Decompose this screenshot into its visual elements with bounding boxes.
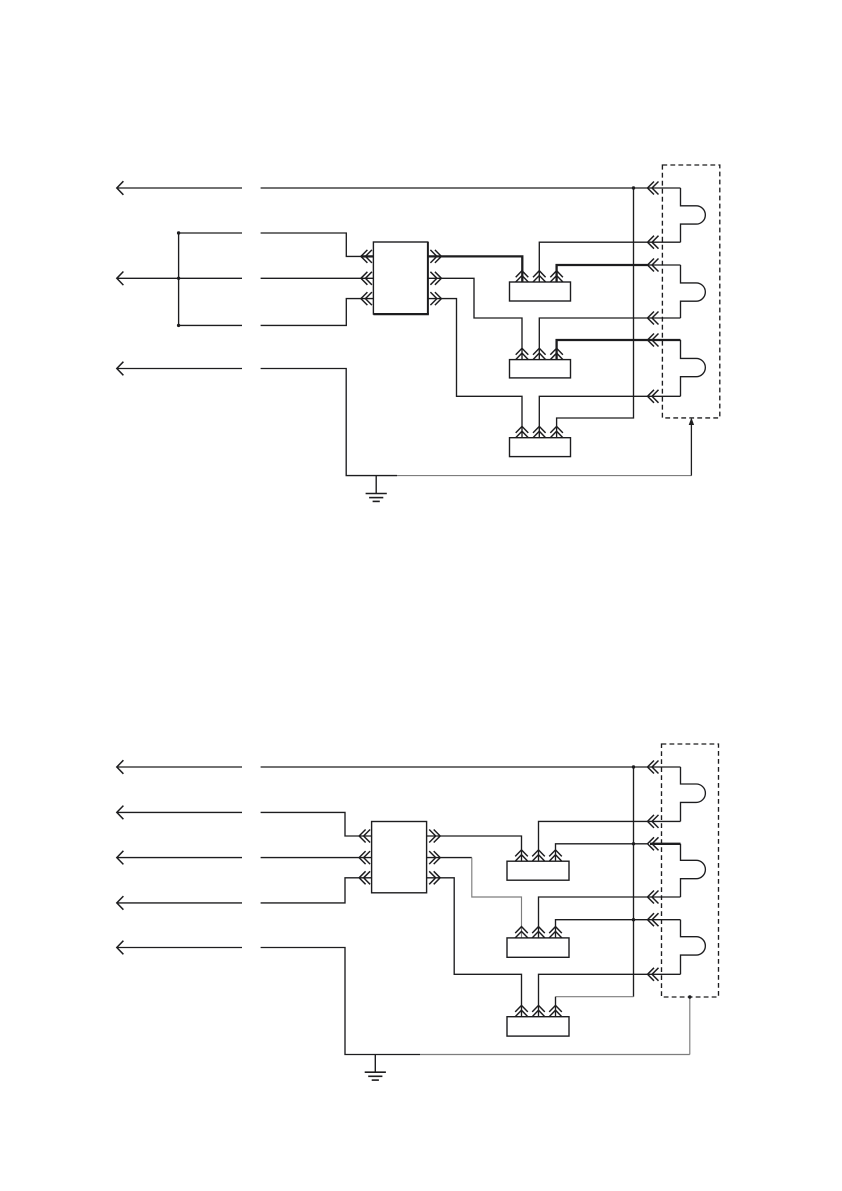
pin B1-2 chevrons bbox=[533, 271, 546, 282]
connector arrow into LP6 top bbox=[648, 913, 659, 926]
wire U1 R1 to socket B1 pin1 (bold) bbox=[428, 256, 523, 282]
wire U1 R3 to socket B3 pin1 bbox=[428, 299, 522, 438]
wire B5 pin2 to lamp LP5 bottom bbox=[539, 897, 681, 938]
pin U2 R1 chevrons bbox=[429, 830, 440, 843]
pin B5-2 chevrons bbox=[532, 927, 545, 938]
node J3 junction dot bbox=[632, 842, 635, 845]
wire rail riser to lamp housing with arrowhead bbox=[689, 418, 694, 476]
node JB1 junction dot bbox=[177, 231, 180, 234]
wire branch-bottom to U1 pin L3 bbox=[261, 299, 374, 326]
pin B1-1 chevrons bbox=[516, 271, 529, 282]
connector arrow into LP3 bottom bbox=[648, 390, 659, 403]
node J5 junction dot bbox=[688, 995, 691, 998]
pin U1 R1 chevrons bbox=[430, 250, 441, 263]
bulb socket B1 bbox=[510, 282, 571, 301]
connector arrow into LP3 top bbox=[648, 334, 659, 347]
connector arrow into LP5 bottom bbox=[648, 891, 659, 904]
wire W4 left segment with arrowhead bbox=[117, 760, 242, 774]
ground G1 bbox=[366, 476, 387, 502]
wire U2 R1 to socket B4 pin1 bbox=[427, 836, 522, 861]
pin B5-3 chevrons bbox=[549, 927, 562, 938]
wire W3 ground rail bbox=[261, 369, 692, 476]
pin B3-3 chevrons bbox=[550, 426, 563, 437]
node JB2 junction dot bbox=[177, 277, 180, 280]
node J2 junction dot bbox=[632, 765, 635, 768]
pin U1 L2 chevrons bbox=[361, 272, 372, 285]
pin U1 R2 chevrons bbox=[430, 272, 441, 285]
wire U2 R2 to socket B5 pin1 bbox=[427, 858, 522, 938]
lamp housing dashed enclosure (bottom diagram) bbox=[662, 744, 719, 997]
wire branch-bottom left segment bbox=[179, 324, 242, 326]
connector arrow into LP1 bottom bbox=[648, 236, 659, 249]
pin B6-2 chevrons bbox=[532, 1005, 545, 1016]
pin B6-3 chevrons bbox=[549, 1005, 562, 1016]
bulb socket B5 bbox=[507, 938, 569, 957]
pin B5-1 chevrons bbox=[515, 927, 528, 938]
wire W1 right segment to lamp LP1 top bbox=[261, 187, 681, 189]
wire branch-top to U1 pin L1 bbox=[261, 233, 374, 256]
wire W4 right segment to lamp LP4 top bbox=[261, 766, 681, 768]
ground G2 bbox=[365, 1055, 386, 1081]
connector arrow into LP2 top bbox=[648, 259, 659, 272]
lamp LP6 bbox=[681, 920, 706, 975]
pin U2 L3 chevrons bbox=[359, 871, 370, 884]
lamp housing dashed enclosure (top diagram) bbox=[662, 165, 719, 418]
pin B2-3 chevrons bbox=[550, 348, 563, 359]
wire W1 left segment with arrowhead bbox=[117, 181, 242, 195]
connector arrow into LP2 bottom bbox=[648, 312, 659, 325]
pin U1 L3 chevrons bbox=[361, 292, 372, 305]
control unit U2 bbox=[372, 822, 427, 893]
bulb socket B4 bbox=[507, 861, 569, 880]
pin B6-1 chevrons bbox=[515, 1005, 528, 1016]
wire branch-top left segment bbox=[179, 232, 242, 234]
wire B1 pin3 to lamp LP2 top (bold) bbox=[557, 265, 681, 282]
connector arrow into LP4 top bbox=[648, 761, 659, 774]
wire bus J2 to socket B6 pin3 bbox=[556, 767, 634, 1017]
lamp LP4 bbox=[681, 767, 706, 821]
pin U2 R2 chevrons bbox=[429, 851, 440, 864]
wire U1 R2 to socket B1... B2 pin1 bbox=[428, 278, 522, 359]
wire B3 pin2 to lamp LP3 bottom bbox=[539, 396, 680, 437]
lamp LP3 bbox=[681, 340, 706, 396]
wire W2 to U1 pin L2 bbox=[261, 277, 374, 279]
pin B4-2 chevrons bbox=[532, 850, 545, 861]
pin B2-2 chevrons bbox=[533, 348, 546, 359]
pin B3-2 chevrons bbox=[533, 426, 546, 437]
node JB3 junction dot bbox=[177, 324, 180, 327]
bulb socket B3 bbox=[510, 438, 571, 457]
pin B4-3 chevrons bbox=[549, 850, 562, 861]
wire B1 pin2 to lamp LP1 bottom bbox=[539, 242, 680, 282]
pin B1-3 chevrons bbox=[550, 271, 563, 282]
pin B2-1 chevrons bbox=[516, 348, 529, 359]
connector arrow into LP5 top bbox=[648, 837, 659, 850]
wire B5 pin3 to lamp LP6 top bbox=[556, 920, 681, 938]
pin B4-1 chevrons bbox=[515, 850, 528, 861]
connector arrow into LP4 bottom bbox=[648, 815, 659, 828]
wire B2 pin2 to lamp LP2 bottom bbox=[539, 318, 680, 360]
wire W8 ground rail bbox=[261, 948, 690, 1055]
wire W7 to U2 pin L3 bbox=[261, 878, 372, 903]
wire W7 left segment with arrowhead bbox=[117, 896, 242, 910]
lamp LP2 bbox=[681, 265, 706, 318]
wire branch vertical bbox=[178, 233, 180, 325]
wire W6 left segment with arrowhead bbox=[117, 851, 242, 865]
pin U2 L2 chevrons bbox=[359, 851, 370, 864]
node J1 junction dot bbox=[632, 186, 635, 189]
wire U2 R3 to socket B6 pin1 bbox=[427, 878, 522, 1017]
lamp LP5 bbox=[681, 844, 706, 897]
wire B2 pin3 to lamp LP3 top (bold) bbox=[557, 340, 681, 360]
wire rail riser to lamp housing bbox=[689, 997, 691, 1055]
wire W8 left segment with arrowhead bbox=[117, 941, 242, 955]
connector arrow into LP1 top bbox=[648, 182, 659, 195]
pin U1 L1 chevrons bbox=[361, 250, 372, 263]
pin U1 R3 chevrons bbox=[430, 292, 441, 305]
connector arrow into LP6 bottom bbox=[648, 968, 659, 981]
node J4 junction dot bbox=[632, 918, 635, 921]
pin U2 L1 chevrons bbox=[359, 830, 370, 843]
bulb socket B6 bbox=[507, 1017, 569, 1036]
lamp LP1 bbox=[681, 188, 706, 242]
pin U2 R3 chevrons bbox=[429, 871, 440, 884]
wire B6 pin2 to lamp LP6 bottom bbox=[539, 974, 681, 1016]
wire bus J1 to socket B3 pin3 bbox=[557, 188, 634, 438]
wire W2 left segment with arrowhead bbox=[117, 272, 242, 286]
wire W3 left segment with arrowhead bbox=[117, 362, 242, 376]
bulb socket B2 bbox=[510, 360, 571, 378]
control unit U1 bbox=[373, 242, 429, 314]
wire W5 left segment with arrowhead bbox=[117, 806, 242, 820]
pin B3-1 chevrons bbox=[516, 426, 529, 437]
wire B4 pin2 to lamp LP4 bottom bbox=[539, 821, 681, 861]
wire B4 pin3 to lamp LP5 top bbox=[556, 844, 681, 861]
wire W5 to U2 pin L1 bbox=[261, 812, 372, 836]
wire W6 to U2 pin L2 bbox=[261, 857, 372, 859]
